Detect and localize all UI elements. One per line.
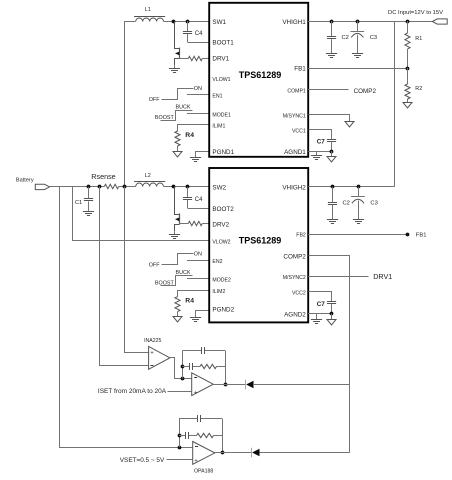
svg-text:R2: R2 [415, 86, 422, 92]
ground PGND1 [190, 158, 201, 162]
svg-text:+: + [194, 390, 198, 396]
wire FB1 [308, 68, 407, 70]
node OPA188 output junction [221, 451, 225, 455]
svg-text:MODE1: MODE1 [212, 112, 231, 118]
wire EN2 pin [187, 260, 209, 262]
node VHIGH1-C2 junction [330, 20, 334, 24]
wire MODE2 pin [187, 278, 209, 280]
svg-text:Battery: Battery [16, 177, 34, 183]
label ON (EN2) [194, 252, 202, 258]
svg-text:OFF: OFF [149, 263, 160, 269]
svg-text:DC Input=12V to 15V: DC Input=12V to 15V [388, 10, 443, 16]
wire VHIGH2 [308, 186, 394, 188]
capacitor C3 (conv1) [350, 21, 377, 54]
node FB2 net terminal [406, 233, 410, 237]
wire EN2 ON position [162, 254, 194, 265]
wire error-amp output to diode [213, 384, 245, 386]
ground Q1 source [169, 66, 180, 73]
wire MODE2 BUCK position [161, 276, 193, 286]
node VHIGH1-C3 junction [356, 20, 360, 24]
label BOOST (MODE1) [155, 115, 175, 121]
svg-text:OPA188: OPA188 [194, 469, 213, 475]
node OPA188 feedback mid junction [178, 434, 182, 438]
wire DRV1 [202, 58, 209, 60]
svg-text:VHIGH1: VHIGH1 [282, 19, 306, 26]
svg-text:COMP1: COMP1 [287, 89, 306, 95]
capacitor error-amp top feedback [202, 347, 205, 354]
op-amp U4 error amp (ISET) [192, 373, 214, 397]
ground arrow ILIM1 [173, 152, 182, 158]
ground C3 (conv2) [353, 220, 364, 224]
capacitor C4 (conv2) [183, 187, 203, 208]
capacitor C7 (conv1) [317, 139, 336, 151]
transistor Q2 [175, 187, 180, 232]
svg-text:+: + [150, 351, 154, 357]
node FB1-R1-R2 junction [406, 67, 410, 71]
ground arrow AGND1 [327, 151, 336, 162]
op-amp U2 TPS61289 (converter 2) [209, 168, 308, 322]
resistor R4 (ILIM2) [175, 297, 194, 312]
node error-amp output junction [224, 383, 228, 387]
wire M/SYNC2 [308, 276, 368, 278]
svg-text:VCC2: VCC2 [292, 291, 306, 297]
svg-text:M/SYNC2: M/SYNC2 [283, 275, 306, 281]
wire PGND1 [196, 152, 210, 158]
svg-text:EN2: EN2 [212, 259, 222, 265]
wire COMP2 down to diode-OR [309, 256, 350, 453]
svg-text:SW1: SW1 [212, 19, 226, 26]
wire MODE1 BUCK position [161, 111, 193, 121]
ground PGND2 [190, 318, 201, 322]
resistor Rsense [91, 172, 118, 189]
wire Rsense right [119, 186, 136, 188]
wire PGND2 [196, 311, 210, 318]
svg-text:COMP2: COMP2 [354, 88, 377, 95]
label VSET [120, 457, 165, 464]
label BOOST (MODE2) [155, 281, 175, 287]
wire feedback right vertical [225, 351, 227, 385]
resistor OPA188 feedback [197, 433, 214, 437]
ground C3 (conv1) [352, 54, 363, 58]
wire Q2 gate to resistor [179, 223, 188, 225]
svg-text:ILIM1: ILIM1 [212, 123, 225, 129]
svg-text:OFF: OFF [149, 97, 160, 103]
label DC Input [388, 10, 443, 16]
ground C2 (conv2) [327, 220, 338, 224]
wire error-amp feedback left [182, 351, 184, 379]
svg-text:INA225: INA225 [144, 338, 161, 344]
diode D2 [252, 448, 260, 457]
node battery-C1 junction [87, 185, 91, 189]
wire feedback top branch [182, 350, 225, 352]
wire battery drop to VSET amp [60, 187, 193, 448]
svg-text:C4: C4 [195, 197, 203, 203]
wire MODE1 pin [187, 113, 209, 115]
node error-amp minus junction [181, 377, 185, 381]
wire OPA188 feedback top branch [179, 418, 222, 420]
capacitor C2 (conv1) [327, 21, 349, 54]
wire ILIM2 pin [178, 291, 210, 297]
ground arrow ILIM2 [173, 317, 182, 323]
capacitor error-amp mid feedback [190, 363, 193, 370]
wire EN1 pin [187, 94, 209, 96]
svg-text:ISET from 20mA to 20A: ISET from 20mA to 20A [98, 388, 167, 395]
svg-text:DRV1: DRV1 [212, 56, 229, 63]
wire VSET to plus input [167, 459, 193, 461]
wire battery drop to VLOW2 [73, 187, 210, 241]
svg-text:C3: C3 [370, 201, 377, 207]
svg-text:FB2: FB2 [296, 233, 306, 239]
label ISET [98, 388, 167, 395]
wire DRV2 [202, 223, 209, 225]
svg-text:R4: R4 [185, 132, 194, 139]
wire BOOT1 [188, 42, 210, 44]
svg-text:FB1: FB1 [294, 66, 306, 73]
svg-text:+: + [194, 458, 198, 464]
capacitor OPA188 mid feedback [186, 432, 189, 439]
ground AGND2 [311, 314, 322, 324]
svg-text:TPS61289: TPS61289 [239, 235, 282, 245]
svg-text:ON: ON [194, 86, 202, 92]
svg-text:C1: C1 [75, 200, 82, 206]
label BUCK (MODE2) [176, 270, 191, 276]
svg-text:PGND1: PGND1 [212, 149, 234, 156]
svg-text:VCC1: VCC1 [292, 129, 306, 135]
svg-text:ON: ON [194, 252, 202, 258]
wire OPA188 feedback left [179, 419, 181, 447]
ground arrow R2 [403, 103, 412, 109]
svg-text:VSET=0.5 ~ 5V: VSET=0.5 ~ 5V [120, 457, 165, 464]
svg-text:R4: R4 [185, 297, 194, 304]
svg-text:VLOW1: VLOW1 [212, 77, 230, 83]
wire M/SYNC1 [309, 115, 350, 122]
ground arrow M/SYNC1 [345, 122, 354, 128]
svg-text:C7: C7 [317, 139, 326, 146]
svg-text:SW2: SW2 [212, 185, 226, 192]
wire ILIM1 pin [178, 125, 210, 132]
ground arrow AGND2 [327, 314, 336, 325]
svg-text:BOOT2: BOOT2 [212, 206, 234, 213]
wire feedback mid branch [182, 366, 225, 368]
svg-text:MODE2: MODE2 [212, 278, 231, 284]
label FB1 net [416, 233, 427, 239]
svg-text:DRV1: DRV1 [373, 272, 392, 281]
capacitor C1 [75, 187, 93, 211]
wire D1 to COMP2 net [253, 384, 350, 386]
label OFF (EN2) [149, 263, 160, 269]
resistor R4 (ILIM1) [175, 131, 194, 146]
label DRV1 net [373, 272, 392, 281]
svg-text:BOOT1: BOOT1 [212, 40, 234, 47]
label Battery [16, 177, 34, 183]
svg-text:L1: L1 [145, 7, 151, 13]
svg-text:BUCK: BUCK [176, 104, 191, 110]
ground AGND1 [311, 151, 322, 160]
node VHIGH2-C3 junction [357, 185, 361, 189]
node feedback mid junction [181, 365, 185, 369]
wire ISET to plus input [168, 391, 192, 393]
svg-text:VHIGH2: VHIGH2 [282, 185, 306, 192]
wire VHIGH net down to VHIGH2 [394, 21, 396, 187]
svg-text:VLOW2: VLOW2 [212, 239, 230, 245]
node Rsense left junction [98, 185, 102, 189]
capacitor OPA188 top feedback [198, 415, 201, 422]
wire L1 left lead + drop to battery node [125, 22, 136, 187]
wire Q1 gate to resistor [179, 58, 188, 60]
transistor Q1 [175, 22, 180, 66]
ground C2 (conv1) [326, 54, 337, 58]
svg-text:COMP2: COMP2 [283, 253, 306, 260]
svg-text:R1: R1 [415, 36, 422, 42]
node SW1 junction (C4) [186, 20, 190, 24]
capacitor C4 [183, 21, 203, 42]
svg-text:C7: C7 [317, 301, 326, 308]
connector Battery [35, 184, 49, 189]
wire VHIGH1 to DC input [308, 21, 432, 23]
wire R4 to arrow [177, 146, 179, 151]
wire INA225 output [170, 358, 192, 379]
label BUCK (MODE1) [176, 104, 191, 110]
capacitor C7 (conv2) [317, 301, 336, 313]
diode D1 [246, 380, 254, 389]
svg-text:DRV2: DRV2 [212, 221, 229, 228]
wire battery rail [49, 186, 104, 188]
svg-text:M/SYNC1: M/SYNC1 [283, 113, 306, 119]
node Rsense right junction [123, 185, 127, 189]
svg-text:C4: C4 [195, 31, 203, 37]
wire VCC1 [309, 130, 332, 140]
node VHIGH2-C2 junction [331, 185, 335, 189]
wire COMP1 [308, 89, 348, 91]
wire VCC2 [309, 292, 332, 302]
node OPA188 minus junction [178, 446, 182, 450]
wire OPA188 output to diode [214, 452, 251, 454]
ground C1 [83, 212, 94, 216]
wire EN1 ON position [162, 89, 194, 100]
op-amp U5 OPA188 [193, 442, 215, 475]
label OFF (EN1) [149, 97, 160, 103]
resistor R_DRV2 [188, 221, 202, 225]
node VHIGH1-R1 junction [406, 20, 410, 24]
svg-text:FB1: FB1 [416, 233, 427, 239]
node SW2 junction (Q2 drain) [172, 185, 176, 189]
wire SW1 node [164, 21, 210, 23]
wire BOOT2 [188, 208, 210, 210]
op-amp U1 TPS61289 (converter 1) [209, 3, 308, 157]
inductor L1 [134, 7, 165, 22]
wire AGND1 [308, 151, 332, 153]
wire AGND2 [308, 313, 332, 315]
wire R4-2 to arrow [177, 312, 179, 317]
resistor R_DRV1 [188, 56, 202, 60]
wire SW2 node [164, 186, 210, 188]
svg-text:C2: C2 [342, 35, 349, 41]
svg-text:L2: L2 [145, 173, 151, 179]
svg-text:AGND1: AGND1 [284, 149, 306, 156]
wire Rsense left to INA- input [100, 187, 149, 366]
capacitor C3 (conv2) [351, 187, 378, 220]
svg-text:C2: C2 [343, 201, 350, 207]
svg-text:Rsense: Rsense [91, 172, 115, 181]
node SW2 junction (C4) [186, 185, 190, 189]
wire FB2 [308, 234, 407, 236]
op-amp U3 INA225 [144, 338, 170, 369]
svg-text:EN1: EN1 [212, 93, 222, 99]
resistor R1 [405, 21, 422, 68]
resistor error-amp feedback [200, 364, 217, 368]
svg-text:PGND2: PGND2 [212, 306, 234, 313]
svg-text:BOOST: BOOST [155, 281, 175, 287]
inductor L2 [134, 173, 165, 187]
label COMP2 net [354, 88, 377, 95]
svg-text:TPS61289: TPS61289 [239, 70, 282, 80]
resistor R2 [405, 68, 422, 102]
svg-text:AGND2: AGND2 [284, 311, 306, 318]
wire OPA188 feedback right vertical [222, 419, 224, 453]
svg-text:C3: C3 [370, 35, 377, 41]
node SW1 junction (Q1 drain) [172, 20, 176, 24]
wire OPA188 feedback mid branch [179, 435, 222, 437]
capacitor C2 (conv2) [328, 187, 350, 220]
svg-text:ILIM2: ILIM2 [212, 289, 225, 295]
wire D2 to COMP2 net [260, 452, 350, 454]
label ON (EN1) [194, 86, 202, 92]
node AGND1-C7 junction [330, 150, 334, 154]
wire Rsense right to INA+ input [125, 187, 149, 353]
ground Q2 source [169, 232, 180, 239]
node AGND2-C7 junction [330, 312, 334, 316]
svg-text:BOOST: BOOST [155, 115, 175, 121]
connector DC input [432, 19, 447, 24]
